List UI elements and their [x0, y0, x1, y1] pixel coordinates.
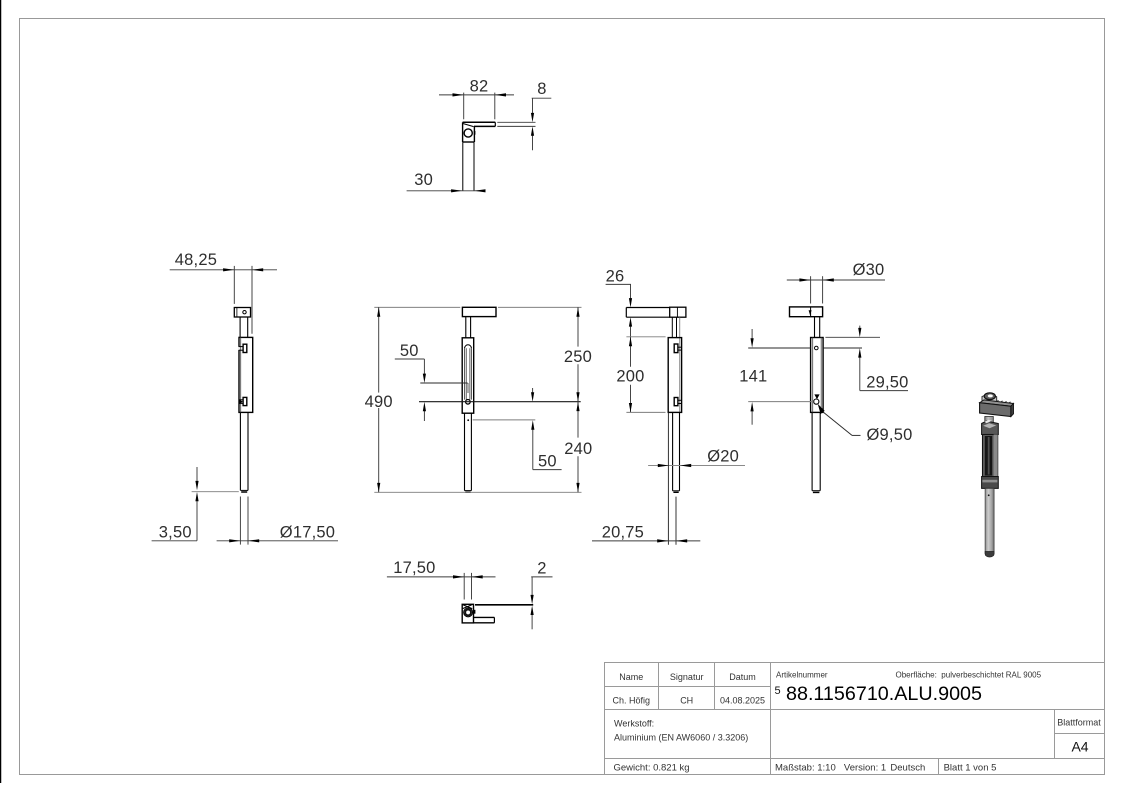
dim 2 lower shaft [531, 613, 533, 630]
svg-text:Datum: Datum [729, 672, 756, 682]
side view plate box [670, 307, 686, 317]
dim 29,50 lower shaft [859, 355, 861, 391]
iso handle bar top face [980, 400, 1014, 406]
svg-text:82: 82 [470, 77, 489, 95]
left view neck left line [239, 317, 241, 337]
side view plate bottom edge [626, 316, 669, 318]
iso housing bottom collar [982, 477, 999, 489]
dim 8 arrow lower [531, 126, 534, 135]
leader line hole 9,50 [823, 412, 852, 436]
svg-text:Ø17,50: Ø17,50 [280, 523, 335, 541]
side view rod right line [679, 412, 681, 490]
ext line housing left vertical [667, 413, 669, 545]
side view housing [668, 338, 681, 413]
iso housing top collar highlight [983, 423, 996, 428]
front view slot line d [471, 348, 473, 399]
svg-text:Blatt 1 von 5: Blatt 1 von 5 [944, 763, 997, 774]
dim 17,50 arrow right [248, 539, 259, 542]
front plate top ext line right [498, 306, 582, 308]
bottom view X diagonal 2 [463, 605, 473, 609]
bottom view inner circle [465, 610, 471, 616]
dim 82 line [439, 94, 514, 96]
dim 48,25 ext line right [251, 266, 253, 334]
dim 2 underline [531, 576, 552, 578]
svg-text:Blattformat: Blattformat [1057, 718, 1101, 728]
front plate top ext line left [374, 306, 460, 308]
bottom view black tab [474, 610, 476, 614]
dim 50 lower upper shaft [532, 388, 534, 395]
dim 26 leader vertical [630, 284, 632, 300]
dim 50 upper arrow down [423, 374, 426, 383]
ext line rod axis vertical [675, 497, 677, 545]
front view rod right line [470, 413, 472, 490]
side view plate top edge [626, 307, 669, 309]
dim 8 ext line top [497, 121, 535, 123]
dim 50 upper arrow up [423, 402, 426, 411]
dim 50 upper underline [395, 358, 425, 360]
svg-text:Ø30: Ø30 [853, 261, 885, 279]
dim 17,50 bottom ext right [471, 573, 473, 600]
dim 48,25 arrow right [252, 268, 263, 271]
dim 250 arrow top [576, 307, 579, 316]
ext line housing bottom [626, 411, 665, 413]
column divider Name/Signatur [658, 663, 660, 710]
dim 30 line [407, 190, 481, 192]
svg-text:48,25: 48,25 [175, 251, 217, 269]
dim 17,50 line [217, 540, 338, 542]
dim 240 arrow top [576, 402, 579, 411]
front view small hole dot [467, 419, 469, 421]
svg-text:490: 490 [365, 393, 393, 411]
svg-text:26: 26 [606, 268, 625, 286]
svg-text:Ø9,50: Ø9,50 [867, 426, 913, 444]
svg-text:Ch. Höfig: Ch. Höfig [613, 696, 651, 706]
iso rod bottom cap [985, 552, 994, 558]
bottom view X diagonal 1 [463, 605, 473, 609]
left view bottom notch tab upper line [239, 399, 243, 401]
dim 490 arrow bottom [377, 483, 380, 492]
top view circle [464, 129, 472, 137]
bottom view square [462, 604, 473, 623]
node line upper hole right [823, 347, 862, 349]
side view rod bottom edge [673, 490, 680, 492]
dim 141 upper shaft [751, 329, 753, 341]
iso housing body [983, 435, 998, 477]
page left black edge line [0, 0, 2, 783]
svg-text:2: 2 [537, 560, 546, 578]
dim 20,75 arrow right [676, 539, 687, 542]
front view rod chamfer line [465, 491, 470, 493]
left view rod chamfer line [241, 491, 247, 493]
view5 leader wedge [814, 394, 819, 399]
dim 82 ext line left [463, 93, 465, 120]
left view top notch tab upper line [239, 346, 243, 348]
dim 17,50 bottom line [387, 576, 496, 578]
leader tail 9,50 [852, 434, 861, 436]
dim 240 line lower [577, 456, 579, 492]
side view neck right line [676, 317, 678, 337]
row line under second row [604, 709, 1105, 711]
title block left border [604, 663, 606, 775]
dim 50 lower underline [533, 469, 562, 471]
top view rod left line [462, 142, 464, 191]
dim 20 arrow right [680, 464, 691, 467]
dim 29,50 arrow lower [858, 348, 861, 357]
dim 50 lower leader vertical [532, 428, 534, 470]
node line C lower hole [473, 419, 536, 421]
left view top notch break [238, 347, 240, 350]
node line B hole axis [419, 401, 581, 403]
node line lower hole left [748, 401, 813, 403]
top view plate right end [494, 122, 496, 126]
bottom ground line [374, 491, 581, 493]
view5 plate divider [810, 307, 812, 317]
dim 50 lower arrow down [531, 392, 534, 401]
dim 8 lower shaft [532, 133, 534, 150]
svg-text:Werkstoff:: Werkstoff: [614, 719, 654, 729]
svg-text:Ø20: Ø20 [707, 448, 739, 466]
svg-text:Signatur: Signatur [670, 672, 704, 682]
svg-text:250: 250 [564, 348, 592, 366]
view5 lower hole circle [814, 399, 819, 404]
dim 490 line upper [378, 307, 380, 392]
dim 17,50 bottom ext left [463, 573, 465, 600]
svg-text:CH: CH [680, 696, 693, 706]
left view rod bottom edge [240, 489, 248, 491]
left view cap [234, 308, 250, 318]
svg-text:Maßstab: 1:10: Maßstab: 1:10 [775, 763, 836, 774]
top view plate bottom edge [474, 125, 495, 127]
dim 20,75 arrow left [657, 539, 668, 542]
dim 26 arrow lower [629, 317, 632, 326]
dim 240 arrow bottom [576, 483, 579, 492]
view5 rod bottom edge [812, 490, 820, 492]
side view plate left end [625, 308, 627, 318]
front view housing [462, 338, 474, 413]
dim 3,50 upper shaft [196, 467, 198, 484]
left view cap inner line [236, 308, 238, 318]
front view slot arch [465, 345, 472, 348]
front view slot center segment [467, 383, 469, 393]
svg-text:29,50: 29,50 [866, 374, 908, 392]
svg-text:200: 200 [616, 367, 644, 385]
left view top notch [243, 344, 247, 352]
iso housing right face [994, 435, 998, 477]
dim 26 arrow upper [629, 298, 632, 307]
view5 upper hole circle [815, 346, 819, 350]
dim 48,25 line [170, 269, 277, 271]
node line A [420, 382, 467, 384]
dim 2 arrow lower [531, 606, 534, 615]
svg-text:04.08.2025: 04.08.2025 [720, 696, 765, 706]
front view neck right line [470, 317, 472, 338]
front view slot line b [465, 348, 467, 399]
svg-text:17,50: 17,50 [393, 559, 435, 577]
top view plate corner diagonal [463, 124, 474, 127]
dim 17,50 bottom arrow right [472, 575, 483, 578]
iso knob ring hole [988, 394, 993, 397]
dim 50 lower arrow up [531, 420, 534, 429]
iso housing slot rod sliver [988, 437, 990, 475]
dim 26 lower shaft [630, 324, 632, 337]
side view top notch tab lower line [678, 349, 682, 351]
iso rod pin dot [988, 494, 990, 496]
left view bottom notch wedge [239, 399, 243, 404]
ext line housing top [626, 336, 665, 338]
dim 3,50 ground line [192, 491, 239, 493]
iso housing top collar white notch [984, 420, 991, 423]
top view plate top edge [463, 121, 496, 123]
svg-text:8: 8 [537, 80, 546, 98]
svg-text:Artikelnummer: Artikelnummer [776, 671, 828, 680]
front view plate [462, 307, 496, 316]
view5 plate [790, 307, 823, 317]
svg-text:30: 30 [414, 171, 433, 189]
dim 82 arrow right [495, 93, 506, 96]
bottom view bar edge line [475, 604, 533, 606]
dim 8 leader vertical [532, 98, 534, 115]
column divider Deutsch/Blatt [938, 759, 940, 775]
leader arrow 9,50 [818, 404, 825, 414]
left view bottom notch [243, 397, 247, 405]
view5 housing inner left line [812, 338, 814, 413]
svg-text:Oberfläche: pulverbeschichtet: Oberfläche: pulverbeschichtet RAL 9005 [896, 671, 1042, 680]
dim 48,25 ext line left [233, 266, 235, 304]
side view rod left line [672, 412, 674, 490]
bottom view lower bar top edge [474, 616, 495, 618]
iso rod [985, 488, 994, 553]
side view top notch [674, 344, 678, 353]
top view square bottom edge [463, 141, 475, 143]
dim 250 arrow bottom [576, 392, 579, 401]
bottom view lower bar bottom edge [474, 622, 495, 624]
left view rod left line [239, 412, 241, 490]
side view rod chamfer line [673, 491, 678, 493]
dim 30 arrow left [799, 278, 810, 281]
svg-text:Aluminium (EN AW6060 / 3.3206): Aluminium (EN AW6060 / 3.3206) [614, 733, 748, 743]
title block top border [604, 662, 1105, 664]
dim 29,50 upper shaft [859, 326, 861, 331]
front view slot line c [469, 348, 471, 399]
view5 rod left line [811, 412, 813, 490]
left view cap circle [243, 311, 246, 314]
dim 50 upper leader vertical [423, 359, 425, 376]
iso neck [985, 417, 994, 427]
iso knob ring [984, 393, 995, 400]
dim 17,50 bottom arrow left [453, 575, 464, 578]
svg-text:50: 50 [400, 342, 419, 360]
dim 17,50 ext line right [247, 497, 249, 545]
left view top notch tab lower line [239, 349, 243, 351]
view5 housing [811, 338, 824, 413]
svg-text:Deutsch: Deutsch [890, 763, 925, 774]
column divider Datum/Artikelnummer [770, 663, 772, 775]
dim 30 line [787, 279, 885, 281]
svg-text:5: 5 [775, 685, 781, 697]
svg-text:240: 240 [564, 440, 592, 458]
side view top notch tab upper line [678, 346, 682, 348]
dim 200 line lower [630, 385, 632, 413]
side view neck left line [671, 317, 673, 337]
dim 141 lower shaft [751, 409, 753, 425]
dim 30 arrow right [823, 278, 834, 281]
svg-text:141: 141 [739, 368, 767, 386]
dim 3,50 underline [152, 540, 197, 542]
dim 20 line [648, 465, 745, 467]
dim 250 line lower [577, 364, 579, 402]
dim 3,50 arrow upper [195, 481, 198, 490]
left view housing [239, 337, 253, 412]
dim 20,75 line [592, 540, 700, 542]
node line upper hole left [748, 347, 810, 349]
dim 200 arrow top [629, 337, 632, 346]
dim 2 leader vertical [531, 577, 533, 598]
ext line housing top right [825, 336, 880, 338]
top view rod right line [473, 142, 475, 191]
front view hole circle [466, 400, 471, 405]
row line above Gewicht row [604, 758, 1105, 760]
dim 8 underline [532, 97, 552, 99]
view5 neck right line [819, 317, 821, 338]
dim 30 ext line right [822, 276, 824, 303]
dim 17,50 arrow left [229, 539, 240, 542]
front view rod bottom edge [465, 490, 472, 492]
top view square left edge [462, 122, 464, 142]
svg-text:Version: 1: Version: 1 [844, 763, 886, 774]
dim 490 arrow top [377, 307, 380, 316]
dim 30 ext line left [810, 276, 812, 303]
view5 neck left line [814, 317, 816, 338]
dim 8 ext line bottom [497, 125, 535, 127]
view5 rod chamfer line [813, 491, 820, 493]
bottom view lower bar right end [493, 617, 495, 622]
side view bottom notch tab upper line [678, 399, 682, 401]
view5 rod right line [819, 412, 821, 490]
iso housing bottom collar band [982, 480, 997, 483]
bottom view outer circle [464, 608, 473, 617]
dim 200 line upper [630, 337, 632, 367]
dim 20 arrow left [658, 464, 669, 467]
iso handle serration marks [997, 400, 1011, 403]
left view neck right line [247, 317, 249, 337]
svg-text:50: 50 [538, 453, 557, 471]
dim 3,50 arrow lower [195, 492, 198, 501]
dim 141 arrow lower [751, 402, 754, 411]
svg-text:88.1156710.ALU.9005: 88.1156710.ALU.9005 [786, 683, 982, 705]
view5 housing inner right line [820, 338, 822, 413]
iso housing slot dark [985, 436, 992, 476]
iso knob base [982, 394, 997, 403]
dim 30 arrow right [474, 189, 485, 192]
column divider Signatur/Datum [714, 663, 716, 710]
dim 26 underline [606, 283, 631, 285]
svg-text:20,75: 20,75 [602, 524, 644, 542]
dim 3,50 leader vertical [196, 500, 198, 541]
left view housing inner line [240, 337, 242, 412]
view5 plate wedge mark [809, 310, 812, 315]
dim 200 arrow bottom [629, 403, 632, 412]
front view rod left line [464, 413, 466, 490]
dim 17,50 ext line left [239, 497, 241, 545]
svg-text:Gewicht: 0.821 kg: Gewicht: 0.821 kg [614, 763, 690, 774]
svg-text:Name: Name [619, 672, 643, 682]
dim 48,25 arrow left [223, 268, 234, 271]
dim 250 line upper [577, 307, 579, 346]
dim 240 line upper [577, 402, 579, 438]
dim 29,50 arrow upper [858, 328, 861, 337]
column divider Blattformat cell [1054, 710, 1056, 759]
svg-text:3,50: 3,50 [159, 523, 192, 541]
iso handle bar right face [1011, 404, 1014, 417]
svg-text:A4: A4 [1071, 739, 1088, 755]
top view square right edge [473, 126, 475, 142]
divider Blattformat/A4 [1055, 733, 1105, 735]
front view slot line a [464, 348, 466, 399]
dim 2 arrow upper [531, 595, 534, 604]
dim 490 line lower [378, 408, 380, 492]
iso housing top collar [982, 421, 999, 435]
dim 82 arrow left [453, 93, 464, 96]
dim 141 arrow upper [751, 338, 754, 347]
side view plate box divider [676, 307, 678, 317]
row line under Name/Signatur/Datum [604, 686, 771, 688]
side view bottom notch tab lower line [678, 403, 682, 405]
left view bottom notch tab lower line [239, 402, 243, 404]
side view bottom notch [674, 398, 678, 406]
dim 50 upper lower shaft [423, 410, 425, 422]
side view rod hidden edge [679, 317, 681, 412]
iso handle bar front face [980, 403, 1011, 417]
front view neck left line [465, 317, 467, 338]
dim 29,50 underline [860, 390, 908, 392]
dim 82 ext line right [494, 93, 496, 120]
dim 8 arrow upper [531, 113, 534, 122]
left view rod right line [247, 412, 249, 490]
top view black tab [474, 131, 476, 135]
dim 30 arrow left [451, 189, 462, 192]
